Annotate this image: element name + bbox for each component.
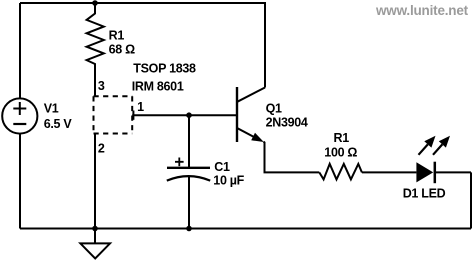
resistor R1 68 ohm (87, 3, 104, 96)
resistor R1 100 ohm (horizontal) (319, 164, 362, 180)
svg-text:TSOP 1838: TSOP 1838 (133, 62, 196, 76)
svg-text:100 Ω: 100 Ω (324, 145, 357, 159)
svg-text:2N3904: 2N3904 (266, 116, 308, 130)
svg-text:3: 3 (98, 79, 105, 93)
wire right side vertical (LED return) (470, 172, 472, 228)
wire top rail and collector drop (20, 3, 265, 88)
wire LED to right vertical (436, 171, 471, 173)
junction node C1 / bottom rail (186, 226, 192, 232)
capacitor C1 bottom plate (curved) (167, 176, 210, 181)
wire pin 1 to transistor base (132, 114, 236, 116)
wire resistor to LED (362, 171, 417, 173)
svg-text:10 µF: 10 µF (213, 174, 244, 188)
voltage source V1 circle (2, 98, 37, 133)
junction node ground (92, 226, 98, 232)
ground symbol triangle (80, 243, 110, 258)
wire pin 2 to bottom rail (94, 134, 96, 229)
svg-text:www.lunite.net: www.lunite.net (375, 3, 469, 18)
wire V1 bottom to ground rail (19, 134, 21, 229)
svg-text:6.5 V: 6.5 V (44, 117, 73, 131)
svg-text:R1: R1 (334, 131, 350, 145)
junction node at top rail and R1 (92, 0, 98, 6)
wire C1 top lead (188, 115, 190, 167)
V1 plus sign (13, 102, 26, 115)
svg-text:D1 LED: D1 LED (403, 187, 446, 201)
svg-text:C1: C1 (214, 160, 230, 174)
capacitor C1 top plate (167, 167, 210, 169)
svg-text:2: 2 (98, 141, 105, 155)
wire left from top rail to V1 (19, 3, 21, 99)
ground stub wire (94, 229, 96, 244)
LED D1 anode triangle (416, 162, 433, 182)
Q1 emitter diagonal with arrow (237, 128, 255, 137)
C1 polarity plus (175, 158, 184, 167)
LED emission arrow 2 (433, 144, 442, 154)
transistor Q1 base bar (236, 87, 238, 142)
Q1 emitter vertical to resistor (264, 142, 320, 173)
svg-text:68 Ω: 68 Ω (109, 42, 135, 56)
svg-text:R1: R1 (109, 28, 125, 42)
svg-text:Q1: Q1 (266, 102, 282, 116)
IR receiver module dashed box (94, 96, 133, 133)
LED D1 cathode bar (434, 162, 437, 184)
V1 minus sign (13, 123, 26, 125)
wire C1 bottom lead (188, 177, 190, 229)
svg-text:IRM 8601: IRM 8601 (132, 79, 184, 93)
Q1 collector diagonal (237, 88, 266, 103)
junction node base wire / C1 (186, 112, 192, 118)
LED emission arrow 1 (419, 144, 428, 154)
pin 1 stub tick (132, 111, 134, 120)
svg-text:1: 1 (137, 100, 144, 114)
svg-text:V1: V1 (44, 102, 59, 116)
wire bottom rail (20, 228, 471, 230)
